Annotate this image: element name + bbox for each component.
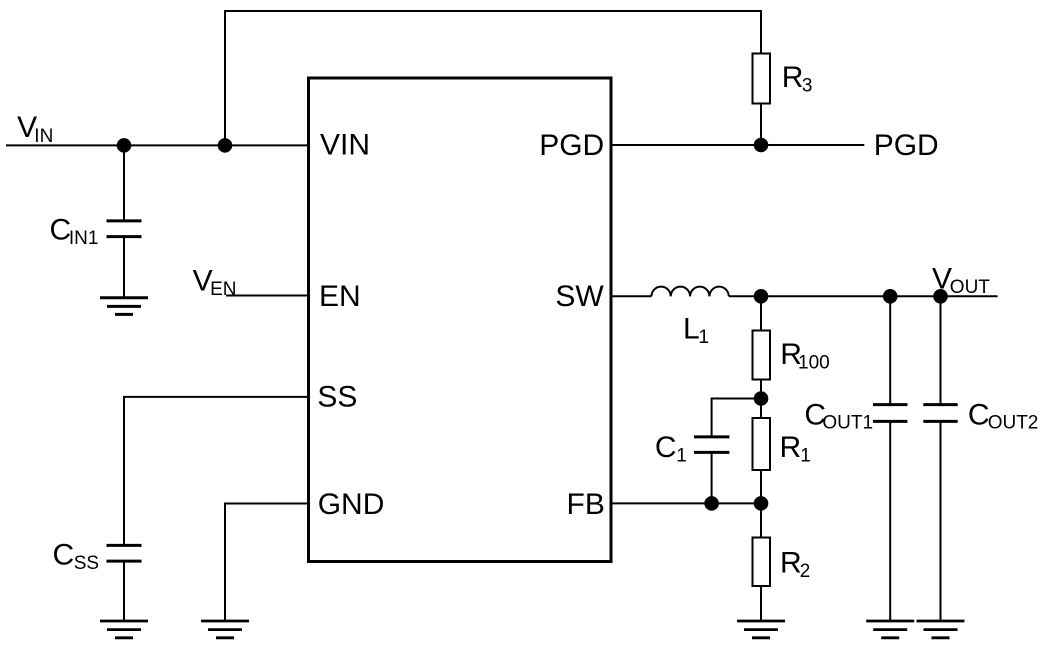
wire VIN input lead — [6, 144, 309, 146]
wire VEN to EN pin — [226, 295, 309, 297]
value label COUT2 — [968, 399, 1038, 434]
inductor L1 — [651, 287, 728, 297]
svg-text:VIN: VIN — [320, 128, 370, 161]
value label L1 — [683, 312, 709, 348]
value label C1 — [655, 431, 687, 467]
wire node A to C1 — [712, 399, 761, 438]
wire GND pin to ground — [225, 504, 309, 622]
capacitor CSS — [107, 545, 142, 561]
ground for GND pin — [201, 621, 249, 638]
wire SW pin to inductor — [612, 295, 652, 297]
value label CSS — [53, 539, 100, 575]
value label R3 — [782, 61, 813, 97]
svg-text:EN: EN — [319, 280, 361, 313]
wire riser from VIN node to top rail — [224, 11, 226, 145]
value label R1 — [780, 431, 811, 467]
resistor R3 — [753, 54, 771, 104]
wire R1 bottom to FB node — [760, 470, 762, 503]
capacitor C1 — [694, 437, 729, 453]
svg-text:L: L — [683, 312, 700, 345]
wire FB pin to divider — [612, 502, 762, 504]
svg-text:FB: FB — [567, 488, 605, 521]
capacitor COUT2 — [923, 405, 957, 422]
ground for R2 — [737, 621, 785, 638]
svg-text:SW: SW — [555, 280, 604, 313]
node junction dot on VIN lead (top rail tap) — [218, 138, 233, 153]
svg-text:C: C — [53, 539, 75, 572]
net label VIN input — [17, 111, 53, 147]
wire R3 bottom to PGD line — [760, 104, 762, 146]
wire COUT1 top lead — [889, 296, 891, 404]
capacitor COUT1 — [873, 405, 907, 422]
value label COUT1 — [804, 399, 873, 434]
svg-text:1: 1 — [800, 445, 811, 466]
wire COUT2 bottom lead — [940, 421, 942, 621]
capacitor CIN1 — [107, 221, 142, 237]
IC U1 body — [309, 78, 612, 562]
svg-text:SS: SS — [74, 553, 99, 574]
wire CIN1 bottom lead — [123, 237, 125, 298]
resistor R2 — [753, 538, 771, 587]
value label R100 — [780, 338, 830, 374]
node junction dot R1/R2/FB — [754, 496, 769, 511]
value label R2 — [780, 547, 810, 583]
node junction dot PGD/R3 — [754, 138, 769, 153]
ground for CIN1 — [100, 298, 148, 315]
svg-text:100: 100 — [798, 353, 830, 374]
svg-text:SS: SS — [317, 380, 357, 413]
wire R2 bottom lead — [760, 586, 762, 621]
node junction dot C1/FB — [704, 496, 719, 511]
ground for CSS — [100, 621, 148, 638]
wire R1 top lead — [760, 399, 762, 419]
net label VOUT — [932, 262, 990, 298]
svg-text:OUT: OUT — [950, 277, 991, 298]
svg-text:1: 1 — [676, 445, 687, 466]
svg-text:GND: GND — [318, 488, 385, 521]
wire COUT2 top lead — [940, 296, 942, 404]
wire SS pin to CSS — [124, 397, 309, 546]
svg-text:2: 2 — [800, 561, 811, 582]
wire top rail to R3 — [224, 11, 761, 54]
svg-text:OUT2: OUT2 — [988, 412, 1039, 433]
svg-text:IN1: IN1 — [69, 228, 99, 249]
wire R100 top lead — [760, 296, 762, 330]
svg-text:R: R — [780, 547, 802, 580]
wire PGD pin to PGD output — [612, 144, 865, 146]
svg-text:PGD: PGD — [874, 129, 939, 162]
node A junction dot (R100/R1/C1) — [754, 391, 769, 406]
value label CIN1 — [50, 214, 99, 250]
resistor R100 — [753, 331, 771, 380]
svg-text:R: R — [782, 61, 804, 94]
net label VEN — [193, 265, 237, 301]
node junction dot SW/R100 — [754, 289, 769, 304]
wire R2 top lead — [760, 503, 762, 537]
svg-text:R: R — [780, 431, 802, 464]
svg-text:EN: EN — [210, 279, 236, 300]
node junction dot on VIN lead (CIN1 tap) — [117, 138, 132, 153]
wire CSS bottom lead — [123, 561, 125, 621]
svg-text:PGD: PGD — [539, 129, 604, 162]
svg-text:C: C — [655, 431, 677, 464]
node junction dot COUT2 tap — [933, 289, 948, 304]
node junction dot COUT1 tap — [883, 289, 898, 304]
capacitor CIN1 top lead — [123, 145, 125, 221]
svg-text:OUT1: OUT1 — [822, 412, 873, 433]
svg-text:1: 1 — [699, 327, 710, 348]
ground for COUT1 — [866, 621, 914, 638]
svg-text:IN: IN — [34, 126, 53, 147]
resistor R1 — [753, 418, 771, 470]
wire C1 bottom to FB line — [711, 452, 713, 503]
wire R100 bottom to node A — [760, 380, 762, 399]
svg-text:C: C — [968, 399, 990, 432]
wire COUT1 bottom lead — [889, 421, 891, 621]
wire inductor to VOUT rail — [729, 295, 998, 297]
ground for COUT2 — [917, 621, 965, 638]
svg-text:3: 3 — [802, 75, 813, 96]
